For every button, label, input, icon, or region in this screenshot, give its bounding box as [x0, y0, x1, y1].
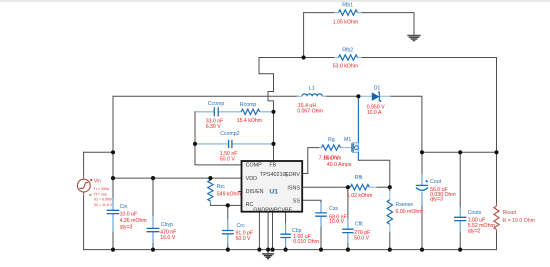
svg-text:60.0 V: 60.0 V: [324, 156, 340, 162]
node comp dots: [271, 110, 275, 114]
IC U1 TPS40210: [242, 161, 303, 213]
resistor Rcomp: [241, 109, 273, 114]
svg-text:qty=3: qty=3: [430, 197, 443, 203]
transistor M1: [352, 96, 359, 161]
resistor Rflt: [348, 185, 390, 190]
svg-text:GNDPWPCVBF: GNDPWPCVBF: [253, 207, 292, 213]
wire Rfb1 left: [304, 12, 335, 14]
wire IC gnd pin 2: [267, 212, 269, 250]
svg-text:549 kOhm: 549 kOhm: [217, 191, 241, 197]
svg-text:Rfb1: Rfb1: [342, 3, 353, 9]
wire output rail: [422, 151, 497, 153]
svg-text:Rcomp: Rcomp: [240, 102, 257, 108]
wire D1 to output corner: [391, 96, 422, 152]
wire Rsense branch: [389, 187, 391, 249]
capacitor Cout (polarized): [416, 174, 428, 206]
wire input top rail: [113, 95, 359, 97]
svg-text:0.067 Ohm: 0.067 Ohm: [297, 109, 323, 115]
resistor Rrc: [208, 178, 213, 203]
svg-text:Cbyp: Cbyp: [161, 222, 173, 228]
svg-text:U1: U1: [269, 189, 278, 196]
resistor Rg: [319, 145, 352, 150]
diode D1 (schottky): [359, 92, 391, 102]
wire bottom ground rail: [84, 249, 497, 251]
wire Cin branch: [112, 96, 114, 249]
svg-text:ISNS: ISNS: [287, 185, 300, 191]
svg-text:V2 = 11.0 V: V2 = 11.0 V: [94, 203, 113, 207]
wire Cout branch: [421, 152, 423, 249]
wire VDD rail: [113, 177, 242, 179]
svg-text:Vin: Vin: [94, 178, 101, 184]
svg-text:FB: FB: [269, 163, 276, 169]
wire Rload branch: [496, 152, 498, 249]
wire M1 source to sense node: [358, 160, 389, 187]
capacitor Crc: [222, 219, 234, 244]
ground (below IC): [262, 250, 274, 259]
svg-text:qty=2: qty=2: [468, 229, 481, 235]
wire IC gnd pin 1: [258, 212, 260, 250]
wire Coutx branch: [459, 152, 461, 249]
svg-text:1.02 kOhm: 1.02 kOhm: [347, 193, 372, 199]
svg-text:10.0 V: 10.0 V: [329, 219, 345, 225]
svg-text:Coutx: Coutx: [468, 210, 482, 216]
svg-text:Rrc: Rrc: [217, 184, 225, 190]
svg-text:DIS/EN: DIS/EN: [246, 189, 264, 195]
svg-text:Rflt: Rflt: [355, 175, 363, 181]
capacitor Cbp: [280, 223, 291, 247]
svg-text:R = 19.0 Ohm: R = 19.0 Ohm: [503, 218, 535, 224]
svg-text:Cflt: Cflt: [355, 221, 363, 227]
svg-text:0.010 Ohm: 0.010 Ohm: [293, 239, 319, 245]
svg-text:6.30 V: 6.30 V: [206, 124, 222, 130]
capacitor Ccomp: [196, 107, 242, 116]
svg-text:40.0 Amps: 40.0 Amps: [327, 162, 352, 168]
node drain dot: [356, 94, 360, 98]
svg-text:15.4 kOhm: 15.4 kOhm: [237, 118, 262, 124]
wire Vin top: [84, 151, 113, 153]
svg-text:M1: M1: [344, 137, 351, 143]
capacitor Ccomp2: [196, 140, 274, 148]
top window strip: [0, 0, 550, 2]
junction dots (rails): [111, 150, 115, 154]
capacitor Cbyp: [147, 216, 160, 243]
inductor L1: [297, 94, 327, 96]
svg-text:Rfb2: Rfb2: [342, 47, 353, 53]
wire IC gnd pin 3: [272, 212, 274, 250]
wire Rfb2 right to output: [362, 58, 497, 153]
svg-text:Rsense: Rsense: [396, 202, 414, 208]
svg-text:16.0 V: 16.0 V: [160, 235, 176, 241]
node ISNS dots: [346, 185, 350, 189]
svg-text:Ccomp: Ccomp: [208, 101, 225, 107]
pin stub DIS/EN: [239, 191, 242, 193]
voltage source Vin: [77, 175, 92, 197]
svg-text:Ccomp2: Ccomp2: [220, 131, 239, 137]
node FB junction dot: [302, 55, 306, 59]
capacitor Cin: [107, 198, 120, 232]
svg-text:Cout: Cout: [430, 179, 442, 185]
node output dots: [420, 150, 424, 154]
capacitor Css: [315, 203, 327, 227]
wire Rfb1 right to ground: [362, 13, 415, 35]
wire Vin branch: [83, 152, 85, 249]
svg-text:Tr = 100u: Tr = 100u: [94, 187, 109, 191]
svg-text:4.36 mOhm: 4.36 mOhm: [120, 218, 147, 224]
svg-text:10.0 uF: 10.0 uF: [120, 211, 138, 217]
svg-text:GDRV: GDRV: [285, 172, 301, 178]
svg-text:50.0 V: 50.0 V: [354, 236, 370, 242]
svg-text:L1: L1: [309, 86, 315, 92]
svg-text:D1: D1: [374, 86, 381, 92]
svg-text:50.0 V: 50.0 V: [220, 157, 236, 163]
svg-text:50.0 V: 50.0 V: [236, 236, 252, 242]
capacitor Coutx: [454, 207, 466, 232]
wire GDRV to Rg: [302, 148, 319, 174]
ground (top right): [407, 36, 420, 41]
svg-text:6.00 mOhm: 6.00 mOhm: [396, 209, 423, 215]
wire Rrc to RC pin: [210, 201, 241, 205]
wire Crc branch: [227, 205, 229, 249]
wire Cbyp branch: [152, 178, 154, 250]
svg-text:VDD: VDD: [246, 176, 257, 182]
svg-text:Tf = 1us: Tf = 1us: [94, 192, 107, 196]
wire Cflt branch: [347, 187, 349, 249]
svg-text:Rg: Rg: [328, 137, 335, 143]
svg-text:COMP: COMP: [246, 163, 263, 169]
capacitor Cflt: [342, 218, 353, 243]
svg-text:SS: SS: [293, 198, 301, 204]
resistor Rfb2: [334, 55, 361, 60]
svg-text:Rload: Rload: [503, 210, 517, 216]
wire SS pin to Css: [302, 200, 321, 249]
resistor Rsense: [387, 191, 392, 232]
svg-text:Css: Css: [329, 206, 338, 212]
svg-text:TPS40210(: TPS40210(: [260, 172, 287, 178]
resistor Rload: [494, 204, 499, 233]
wire FB riser top: [303, 13, 305, 58]
wire Rfb2 left: [304, 57, 335, 59]
svg-text:53.0 kOhm: 53.0 kOhm: [333, 64, 358, 70]
wire FB net jog: [259, 58, 304, 162]
wire Cbp branch: [285, 212, 287, 250]
svg-text:RC: RC: [246, 202, 254, 208]
svg-text:1.05 kOhm: 1.05 kOhm: [333, 19, 358, 25]
svg-text:Crc: Crc: [237, 223, 245, 229]
wire COMP loop left: [195, 112, 242, 165]
svg-text:qty=3: qty=3: [120, 224, 133, 230]
wire ISNS pin: [302, 186, 348, 188]
svg-text:10.0 A: 10.0 A: [367, 110, 382, 116]
resistor Rfb1: [334, 10, 361, 15]
svg-text:Cin: Cin: [120, 204, 128, 210]
svg-text:V1 = 0.000V: V1 = 0.000V: [94, 198, 114, 202]
